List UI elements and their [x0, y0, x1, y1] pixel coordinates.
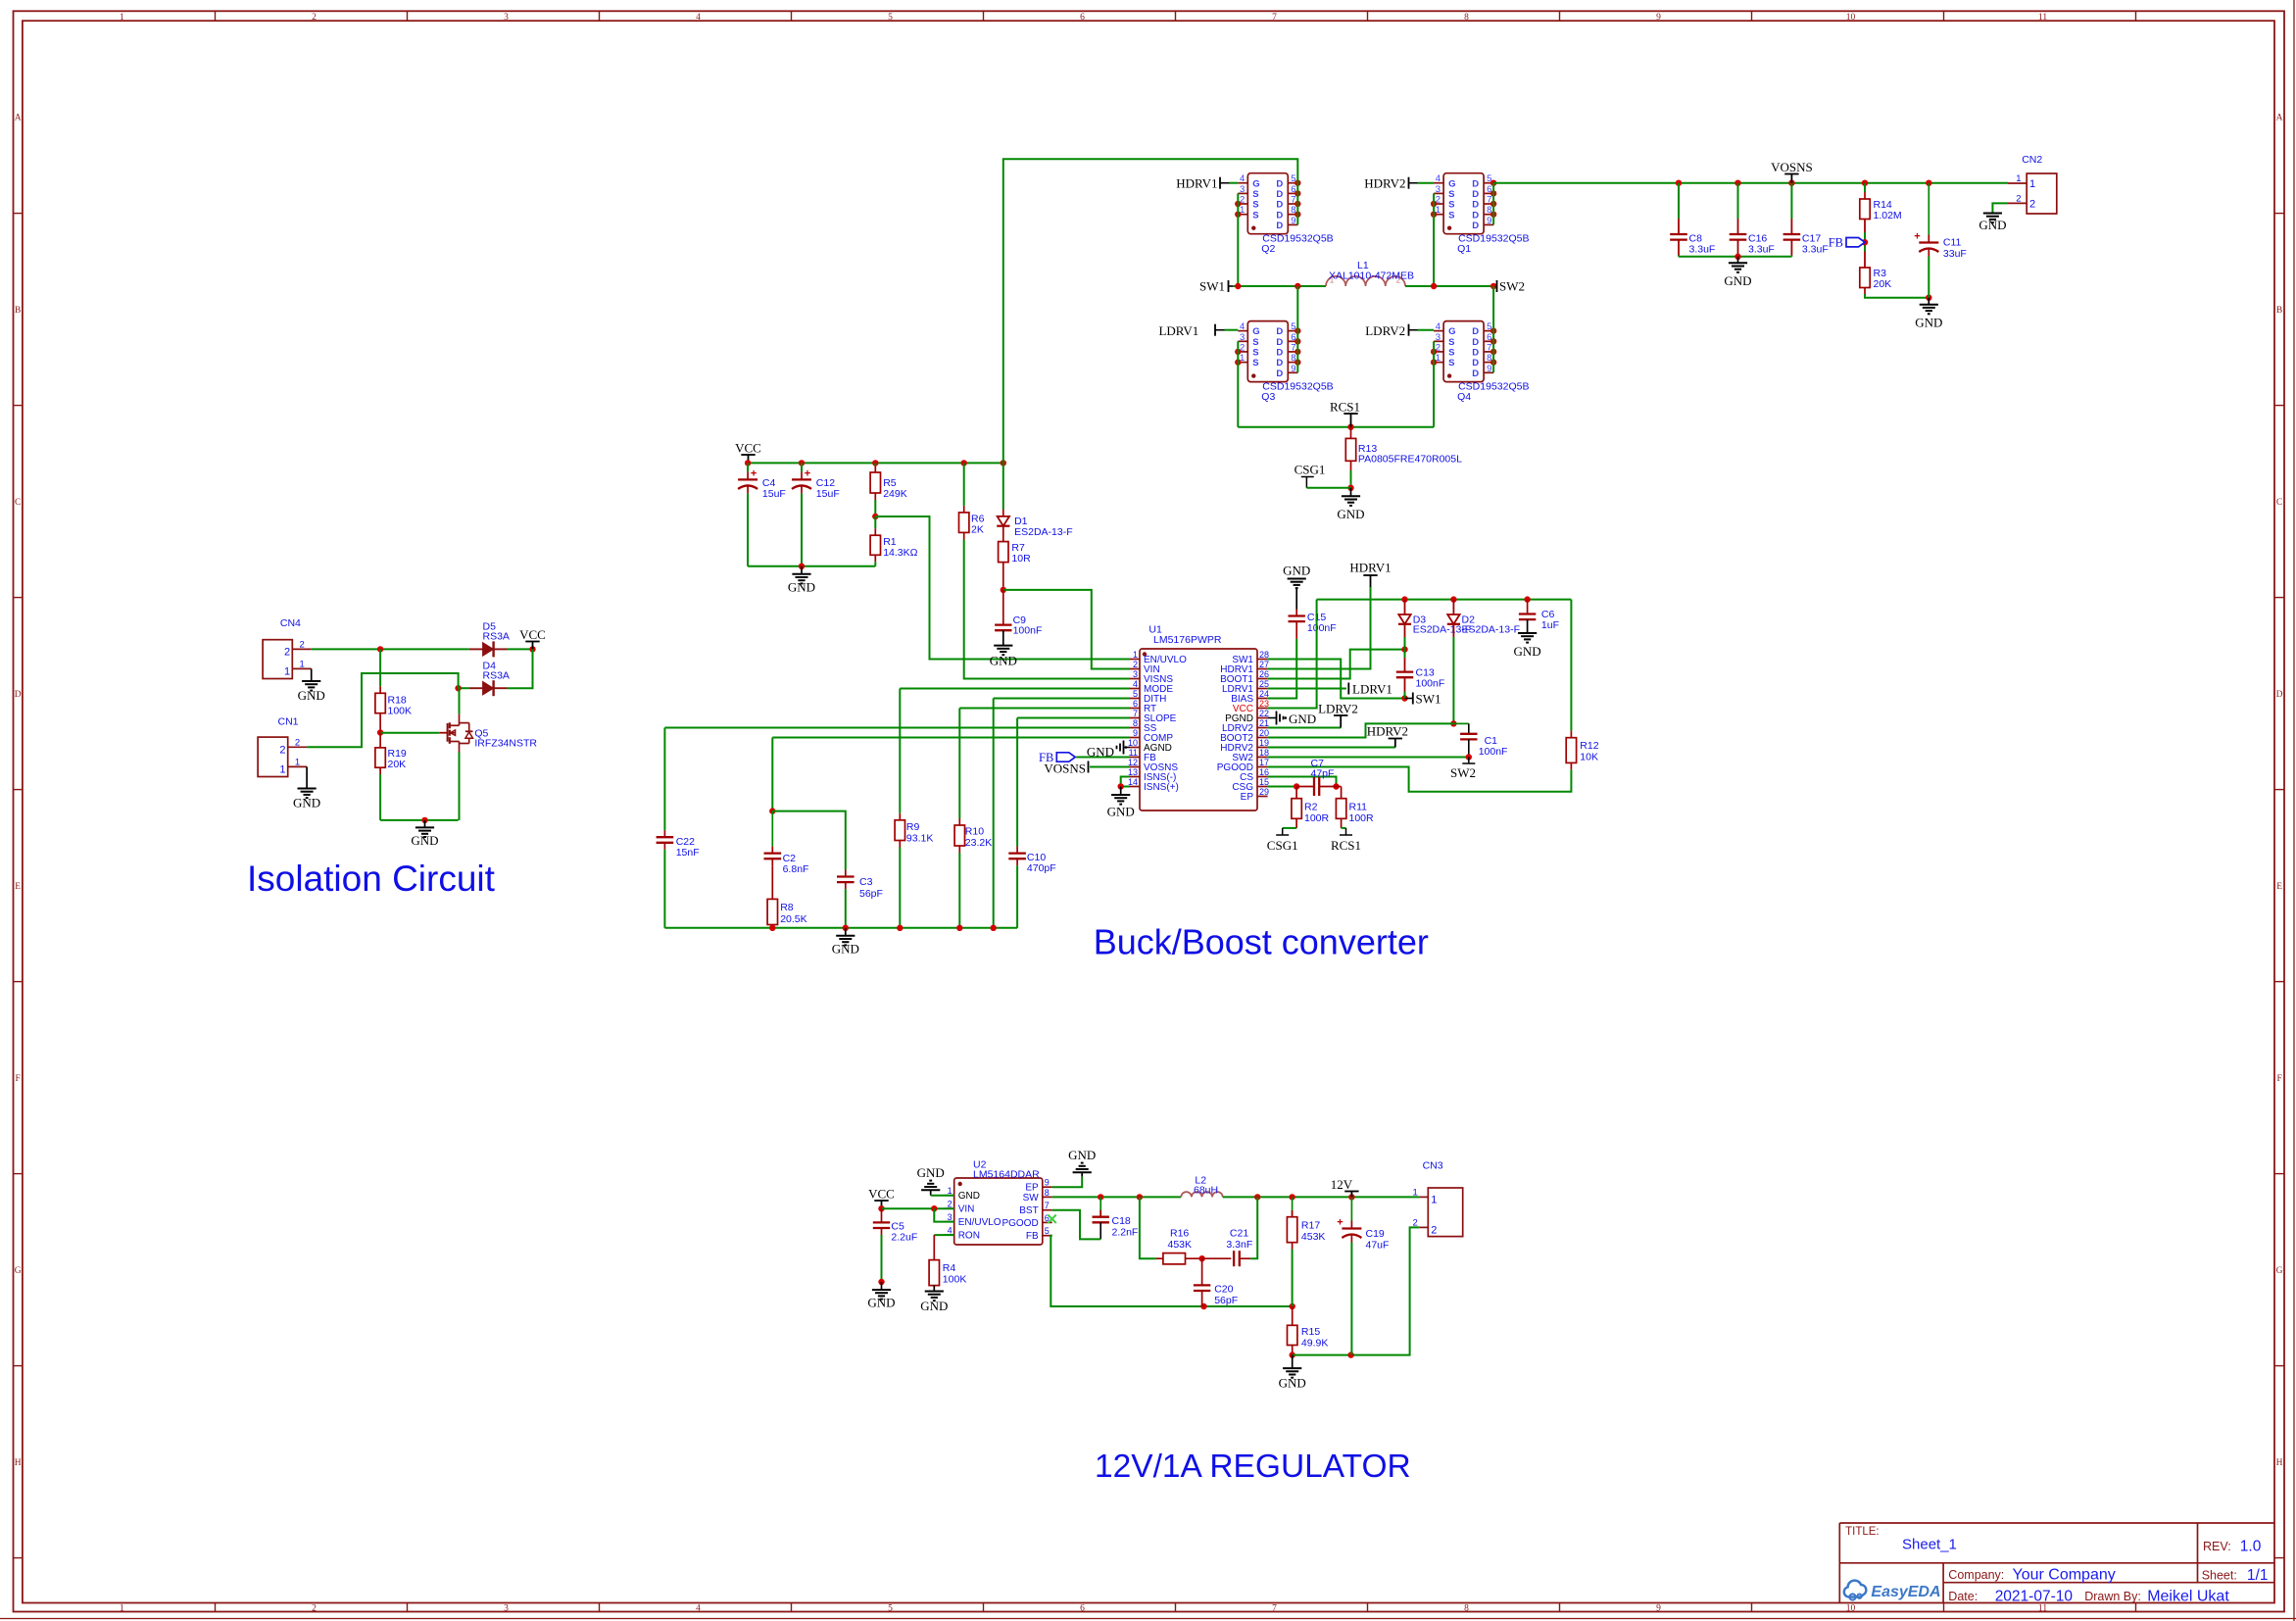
- svg-text:14.3KΩ: 14.3KΩ: [883, 547, 917, 559]
- svg-text:100nF: 100nF: [1416, 678, 1445, 690]
- svg-text:PA0805FRE470R005L: PA0805FRE470R005L: [1358, 454, 1462, 466]
- svg-text:R15: R15: [1301, 1326, 1320, 1338]
- svg-text:2.2uF: 2.2uF: [891, 1232, 917, 1244]
- svg-text:S: S: [1252, 348, 1258, 359]
- svg-text:20.5K: 20.5K: [780, 913, 806, 925]
- svg-text:24: 24: [1259, 689, 1269, 699]
- svg-text:2: 2: [1413, 1217, 1418, 1228]
- svg-text:D: D: [1276, 178, 1283, 189]
- svg-text:1.02M: 1.02M: [1874, 210, 1902, 221]
- svg-text:VCC: VCC: [868, 1187, 895, 1202]
- svg-text:249K: 249K: [883, 488, 907, 500]
- svg-text:F: F: [2276, 1074, 2281, 1084]
- svg-text:S: S: [1448, 358, 1454, 368]
- svg-text:12V: 12V: [1331, 1177, 1353, 1192]
- svg-text:SW2: SW2: [1450, 765, 1476, 780]
- svg-text:R10: R10: [965, 826, 984, 838]
- svg-text:11: 11: [2038, 1604, 2047, 1614]
- svg-text:26: 26: [1259, 669, 1269, 679]
- svg-text:D: D: [15, 690, 22, 700]
- svg-text:10: 10: [1846, 13, 1856, 23]
- svg-text:S: S: [1252, 189, 1258, 200]
- svg-text:453K: 453K: [1168, 1239, 1193, 1251]
- svg-text:2: 2: [2029, 199, 2035, 211]
- svg-text:1.0: 1.0: [2240, 1539, 2262, 1555]
- svg-text:20K: 20K: [1874, 278, 1892, 290]
- svg-text:5: 5: [888, 1604, 893, 1614]
- svg-text:9: 9: [1045, 1178, 1050, 1188]
- svg-text:LM5176PWPR: LM5176PWPR: [1153, 634, 1222, 646]
- svg-text:8: 8: [1464, 13, 1469, 23]
- svg-text:Your Company: Your Company: [2013, 1567, 2116, 1584]
- svg-text:CN4: CN4: [280, 617, 301, 629]
- svg-text:D: D: [1472, 348, 1479, 359]
- svg-text:47pF: 47pF: [1311, 768, 1335, 780]
- svg-text:15uF: 15uF: [816, 488, 840, 500]
- svg-text:E: E: [15, 882, 21, 892]
- svg-text:G: G: [15, 1266, 22, 1276]
- svg-text:4: 4: [1133, 679, 1138, 689]
- svg-text:R16: R16: [1170, 1228, 1189, 1240]
- svg-text:+: +: [805, 467, 810, 479]
- svg-text:D: D: [1472, 368, 1479, 379]
- svg-text:12V/1A REGULATOR: 12V/1A REGULATOR: [1095, 1449, 1411, 1485]
- svg-text:GND: GND: [1068, 1148, 1096, 1162]
- svg-text:3.3nF: 3.3nF: [1226, 1239, 1252, 1251]
- svg-text:4: 4: [1436, 321, 1441, 332]
- svg-text:GND: GND: [920, 1299, 948, 1313]
- svg-text:S: S: [1252, 337, 1258, 348]
- svg-text:2: 2: [1431, 1224, 1437, 1236]
- svg-text:2: 2: [312, 13, 317, 23]
- svg-text:S: S: [1448, 210, 1454, 221]
- svg-text:27: 27: [1259, 660, 1269, 669]
- svg-text:R4: R4: [943, 1262, 956, 1274]
- svg-text:HDRV2: HDRV2: [1364, 176, 1405, 191]
- svg-text:7: 7: [1272, 1604, 1277, 1614]
- svg-text:4: 4: [696, 1604, 701, 1614]
- svg-text:GND: GND: [1279, 1376, 1306, 1391]
- svg-text:D: D: [1472, 221, 1479, 231]
- svg-text:C18: C18: [1112, 1215, 1131, 1227]
- svg-text:+: +: [751, 467, 757, 479]
- svg-text:23.2K: 23.2K: [965, 837, 992, 849]
- svg-text:CN2: CN2: [2022, 154, 2042, 166]
- svg-text:CN1: CN1: [278, 716, 299, 728]
- svg-text:3.3uF: 3.3uF: [1689, 244, 1716, 256]
- svg-text:+: +: [1337, 1217, 1343, 1229]
- svg-text:D: D: [1472, 189, 1479, 200]
- svg-text:GND: GND: [1978, 218, 2006, 232]
- svg-text:100R: 100R: [1349, 812, 1375, 824]
- svg-text:HDRV1: HDRV1: [1349, 561, 1391, 575]
- svg-text:6: 6: [1133, 699, 1138, 709]
- svg-text:GND: GND: [1514, 644, 1541, 659]
- svg-text:HDRV1: HDRV1: [1176, 176, 1217, 191]
- svg-text:4: 4: [1240, 173, 1245, 184]
- svg-text:21: 21: [1259, 718, 1269, 728]
- svg-text:Drawn By:: Drawn By:: [2084, 1590, 2141, 1603]
- svg-text:3.3uF: 3.3uF: [1802, 244, 1829, 256]
- svg-text:SW1: SW1: [1199, 279, 1225, 294]
- svg-text:C21: C21: [1230, 1228, 1248, 1240]
- svg-text:2: 2: [295, 737, 300, 748]
- svg-text:G: G: [1252, 326, 1259, 337]
- svg-text:S: S: [1448, 189, 1454, 200]
- svg-text:Meikel Ukat: Meikel Ukat: [2147, 1588, 2229, 1604]
- svg-text:GND: GND: [1915, 316, 1942, 330]
- svg-text:GND: GND: [958, 1191, 980, 1202]
- svg-text:S: S: [1448, 337, 1454, 348]
- svg-text:20K: 20K: [388, 759, 407, 770]
- svg-text:9: 9: [1291, 364, 1295, 374]
- svg-text:1: 1: [1431, 1194, 1437, 1205]
- svg-text:20: 20: [1259, 728, 1269, 738]
- svg-text:GND: GND: [1289, 712, 1316, 726]
- svg-text:1: 1: [279, 763, 285, 775]
- svg-text:56pF: 56pF: [859, 888, 883, 900]
- svg-text:8: 8: [1464, 1604, 1469, 1614]
- svg-text:7: 7: [1045, 1201, 1050, 1210]
- svg-text:100nF: 100nF: [1013, 625, 1043, 637]
- svg-text:6.8nF: 6.8nF: [783, 863, 809, 875]
- svg-text:3.3uF: 3.3uF: [1748, 244, 1775, 256]
- svg-text:PGOOD: PGOOD: [1001, 1218, 1038, 1229]
- svg-text:2: 2: [279, 744, 285, 756]
- svg-text:D: D: [1472, 358, 1479, 368]
- svg-text:470pF: 470pF: [1027, 862, 1056, 874]
- svg-text:9: 9: [1656, 1604, 1661, 1614]
- svg-text:100K: 100K: [388, 706, 413, 717]
- svg-text:ES2DA-13-F: ES2DA-13-F: [1462, 624, 1521, 636]
- svg-text:47uF: 47uF: [1366, 1240, 1390, 1252]
- svg-text:D: D: [1472, 326, 1479, 337]
- svg-text:9: 9: [1291, 216, 1295, 226]
- svg-text:2: 2: [312, 1604, 317, 1614]
- svg-text:9: 9: [1487, 364, 1491, 374]
- svg-text:FB: FB: [1026, 1231, 1039, 1242]
- svg-text:33uF: 33uF: [1943, 248, 1967, 260]
- svg-text:LDRV1: LDRV1: [1352, 682, 1392, 697]
- svg-text:G: G: [1448, 178, 1455, 189]
- svg-text:RS3A: RS3A: [483, 631, 510, 643]
- svg-text:3: 3: [1436, 332, 1441, 343]
- svg-text:6: 6: [1080, 1604, 1085, 1614]
- svg-text:GND: GND: [1724, 273, 1751, 288]
- svg-text:1: 1: [120, 13, 124, 23]
- svg-text:D: D: [1472, 337, 1479, 348]
- svg-text:2K: 2K: [971, 524, 984, 536]
- svg-text:Q4: Q4: [1457, 391, 1471, 403]
- svg-text:Sheet_1: Sheet_1: [1902, 1537, 1957, 1553]
- svg-text:29: 29: [1259, 787, 1269, 797]
- svg-text:100R: 100R: [1304, 812, 1330, 824]
- svg-text:1: 1: [2016, 173, 2021, 184]
- svg-text:Date:: Date:: [1948, 1590, 1978, 1603]
- svg-text:2: 2: [2016, 193, 2021, 204]
- svg-text:28: 28: [1259, 650, 1269, 660]
- svg-text:FB: FB: [1829, 236, 1843, 250]
- svg-text:2: 2: [300, 640, 305, 651]
- svg-text:1: 1: [1133, 650, 1138, 660]
- svg-text:VCC: VCC: [519, 627, 546, 642]
- svg-text:1/1: 1/1: [2247, 1567, 2269, 1584]
- svg-text:EP: EP: [1241, 792, 1254, 803]
- svg-text:2: 2: [284, 647, 290, 659]
- svg-text:25: 25: [1259, 679, 1269, 689]
- svg-text:GND: GND: [1107, 805, 1135, 819]
- svg-text:C11: C11: [1943, 237, 1962, 249]
- svg-text:GND: GND: [293, 796, 320, 810]
- svg-text:H: H: [15, 1458, 22, 1468]
- svg-text:1: 1: [295, 757, 300, 767]
- svg-text:ES2DA-13-F: ES2DA-13-F: [1014, 526, 1073, 538]
- svg-text:R12: R12: [1580, 740, 1598, 752]
- svg-text:5: 5: [1045, 1226, 1050, 1236]
- svg-text:3: 3: [504, 1604, 509, 1614]
- svg-text:1uF: 1uF: [1541, 619, 1559, 631]
- svg-text:Sheet:: Sheet:: [2202, 1569, 2237, 1583]
- svg-text:BST: BST: [1019, 1205, 1038, 1216]
- svg-text:EN/UVLO: EN/UVLO: [958, 1217, 1001, 1228]
- svg-text:GND: GND: [990, 654, 1017, 668]
- svg-text:G: G: [2276, 1266, 2283, 1276]
- svg-text:16: 16: [1259, 767, 1269, 777]
- svg-text:R2: R2: [1304, 802, 1318, 813]
- svg-text:G: G: [1448, 326, 1455, 337]
- svg-text:100nF: 100nF: [1307, 622, 1337, 634]
- svg-text:GND: GND: [832, 941, 859, 956]
- svg-text:D: D: [1472, 178, 1479, 189]
- svg-text:RCS1: RCS1: [1330, 400, 1360, 415]
- svg-text:D: D: [1472, 200, 1479, 211]
- svg-text:H: H: [2276, 1458, 2283, 1468]
- svg-text:11: 11: [2038, 13, 2047, 23]
- svg-text:HDRV2: HDRV2: [1367, 724, 1408, 739]
- svg-text:Company:: Company:: [1948, 1568, 2004, 1582]
- svg-text:Isolation Circuit: Isolation Circuit: [247, 859, 496, 899]
- svg-text:C: C: [2276, 498, 2282, 508]
- svg-text:D: D: [1276, 337, 1283, 348]
- svg-text:GND: GND: [1337, 507, 1364, 521]
- svg-text:3: 3: [1240, 332, 1245, 343]
- svg-text:ISNS(+): ISNS(+): [1144, 782, 1179, 793]
- svg-text:100nF: 100nF: [1479, 746, 1508, 758]
- svg-text:Q2: Q2: [1261, 243, 1275, 255]
- svg-text:2021-07-10: 2021-07-10: [1995, 1588, 2074, 1604]
- svg-text:XAL1010-472MEB: XAL1010-472MEB: [1329, 270, 1414, 282]
- svg-text:1: 1: [2029, 178, 2035, 190]
- svg-text:LDRV2: LDRV2: [1365, 323, 1405, 338]
- svg-text:GND: GND: [411, 833, 438, 848]
- svg-text:10: 10: [1846, 1604, 1856, 1614]
- svg-text:3: 3: [1240, 184, 1245, 195]
- svg-text:2: 2: [1133, 660, 1138, 669]
- svg-text:1: 1: [284, 666, 290, 678]
- svg-text:3: 3: [1133, 669, 1138, 679]
- svg-text:5: 5: [1133, 689, 1138, 699]
- svg-text:RCS1: RCS1: [1331, 838, 1361, 853]
- svg-text:EasyEDA: EasyEDA: [1871, 1584, 1940, 1600]
- svg-text:S: S: [1448, 200, 1454, 211]
- svg-text:15uF: 15uF: [762, 488, 786, 500]
- svg-text:GND: GND: [917, 1165, 945, 1180]
- svg-text:S: S: [1252, 210, 1258, 221]
- svg-text:SW2: SW2: [1499, 279, 1525, 294]
- svg-text:VCC: VCC: [735, 441, 761, 456]
- svg-text:6: 6: [1080, 13, 1085, 23]
- svg-text:5: 5: [888, 13, 893, 23]
- svg-text:LM5164DDAR: LM5164DDAR: [973, 1168, 1040, 1180]
- svg-text:VIN: VIN: [958, 1204, 975, 1215]
- svg-text:GND: GND: [1283, 564, 1310, 578]
- svg-text:4: 4: [1436, 173, 1441, 184]
- svg-text:17: 17: [1259, 758, 1269, 767]
- svg-text:C20: C20: [1214, 1284, 1233, 1296]
- svg-text:C19: C19: [1366, 1228, 1385, 1240]
- svg-text:E: E: [2276, 882, 2282, 892]
- svg-text:R8: R8: [780, 902, 794, 913]
- svg-text:9: 9: [1133, 728, 1138, 738]
- svg-text:D: D: [2276, 690, 2283, 700]
- svg-text:RON: RON: [958, 1231, 980, 1242]
- svg-text:GND: GND: [867, 1296, 895, 1310]
- svg-text:CSG1: CSG1: [1295, 463, 1326, 477]
- svg-text:10R: 10R: [1011, 553, 1031, 565]
- svg-text:49.9K: 49.9K: [1301, 1338, 1328, 1350]
- svg-text:8: 8: [1133, 718, 1138, 728]
- svg-text:LDRV1: LDRV1: [1158, 323, 1198, 338]
- svg-text:D: D: [1276, 189, 1283, 200]
- svg-text:11: 11: [1129, 748, 1138, 758]
- svg-text:REV:: REV:: [2203, 1540, 2231, 1553]
- svg-text:CSG1: CSG1: [1267, 838, 1298, 853]
- svg-text:100K: 100K: [943, 1274, 967, 1286]
- svg-text:VOSNS: VOSNS: [1771, 160, 1813, 174]
- svg-text:A: A: [2276, 114, 2283, 123]
- svg-text:R17: R17: [1301, 1220, 1320, 1232]
- svg-text:CN3: CN3: [1423, 1160, 1443, 1172]
- svg-text:2.2nF: 2.2nF: [1112, 1227, 1139, 1239]
- svg-text:D: D: [1276, 368, 1283, 379]
- svg-text:D: D: [1276, 348, 1283, 359]
- svg-text:7: 7: [1272, 13, 1277, 23]
- svg-text:B: B: [2276, 306, 2282, 316]
- svg-text:56pF: 56pF: [1214, 1295, 1238, 1306]
- svg-text:3: 3: [1436, 184, 1441, 195]
- svg-text:10: 10: [1128, 738, 1138, 748]
- svg-text:A: A: [15, 114, 22, 123]
- svg-text:D: D: [1276, 221, 1283, 231]
- svg-text:4: 4: [1240, 321, 1245, 332]
- svg-text:C: C: [15, 498, 21, 508]
- svg-text:93.1K: 93.1K: [906, 833, 933, 845]
- svg-text:453K: 453K: [1301, 1231, 1326, 1243]
- svg-text:LDRV2: LDRV2: [1318, 702, 1358, 716]
- svg-text:C3: C3: [859, 876, 873, 888]
- svg-text:R9: R9: [906, 821, 920, 833]
- svg-text:19: 19: [1259, 738, 1269, 748]
- svg-text:9: 9: [1656, 13, 1661, 23]
- svg-text:VOSNS: VOSNS: [1044, 761, 1086, 776]
- svg-text:SW: SW: [1023, 1193, 1040, 1203]
- svg-text:8: 8: [1045, 1188, 1050, 1198]
- svg-text:1: 1: [1413, 1187, 1418, 1198]
- svg-text:D: D: [1276, 200, 1283, 211]
- svg-text:7: 7: [1133, 709, 1138, 718]
- svg-text:1: 1: [120, 1604, 124, 1614]
- svg-text:9: 9: [1487, 216, 1491, 226]
- svg-text:B: B: [15, 306, 21, 316]
- svg-text:68uH: 68uH: [1194, 1184, 1218, 1196]
- svg-text:D: D: [1276, 358, 1283, 368]
- svg-text:4: 4: [696, 13, 701, 23]
- svg-text:S: S: [1252, 200, 1258, 211]
- svg-text:GND: GND: [298, 688, 325, 703]
- svg-text:3: 3: [504, 13, 509, 23]
- svg-text:GND: GND: [788, 579, 815, 594]
- svg-text:Buck/Boost converter: Buck/Boost converter: [1094, 922, 1429, 962]
- svg-text:S: S: [1252, 358, 1258, 368]
- svg-text:F: F: [16, 1074, 21, 1084]
- svg-text:RS3A: RS3A: [483, 670, 510, 682]
- svg-text:15nF: 15nF: [676, 847, 700, 859]
- svg-text:1: 1: [300, 660, 305, 670]
- svg-text:15: 15: [1259, 777, 1269, 787]
- svg-text:D: D: [1276, 326, 1283, 337]
- svg-text:D: D: [1472, 210, 1479, 221]
- svg-text:G: G: [1252, 178, 1259, 189]
- svg-text:TITLE:: TITLE:: [1845, 1526, 1880, 1538]
- svg-text:10K: 10K: [1580, 752, 1598, 763]
- svg-text:18: 18: [1259, 748, 1269, 758]
- svg-text:IRFZ34NSTR: IRFZ34NSTR: [474, 737, 537, 749]
- svg-text:Q3: Q3: [1261, 391, 1275, 403]
- svg-text:Q1: Q1: [1457, 243, 1471, 255]
- svg-text:R11: R11: [1349, 802, 1368, 813]
- svg-text:+: +: [1914, 231, 1920, 243]
- svg-text:SW1: SW1: [1416, 692, 1441, 707]
- svg-text:23: 23: [1259, 699, 1269, 709]
- svg-text:S: S: [1448, 348, 1454, 359]
- svg-text:22: 22: [1259, 709, 1269, 718]
- svg-text:D: D: [1276, 210, 1283, 221]
